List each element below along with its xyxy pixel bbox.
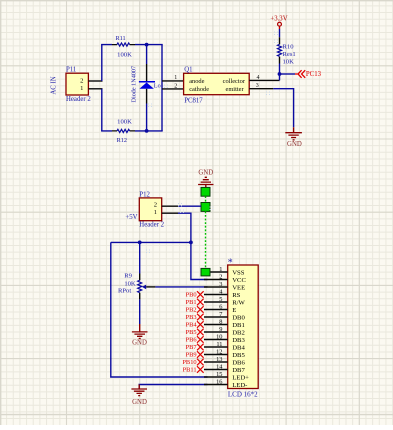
no-ERC marker pin 9 — [197, 329, 204, 336]
pin 1 of P12 — [162, 212, 178, 214]
no-ERC marker pin 10 — [197, 336, 204, 343]
junction node bottom rail/diode — [145, 129, 149, 133]
pin 2 of Q1 — [162, 88, 184, 90]
pin 8 of LCD (DB1) — [204, 318, 245, 328]
svg-text:Header 2: Header 2 — [139, 222, 164, 229]
no-ERC marker pin 7 — [197, 314, 204, 321]
svg-text:15: 15 — [216, 371, 222, 378]
dotted net tie wire to LCD pin1 — [205, 211, 207, 268]
wire rail to R9 — [139, 242, 141, 273]
svg-text:2: 2 — [80, 78, 83, 85]
ground (bottom) — [131, 385, 147, 407]
pin 14 of LCD (DB7) — [204, 363, 245, 373]
svg-text:DB3: DB3 — [232, 337, 245, 344]
svg-text:PB9: PB9 — [186, 352, 197, 359]
svg-text:collector: collector — [223, 78, 246, 85]
pin 3 of Q1 — [249, 88, 273, 90]
wire +5V rail — [111, 241, 191, 243]
junction node rail/R9 — [138, 241, 142, 245]
svg-text:DB7: DB7 — [232, 367, 245, 374]
svg-text:PB5: PB5 — [186, 329, 197, 336]
no-ERC marker pin 12 — [197, 351, 204, 358]
svg-text:PB0: PB0 — [186, 292, 197, 299]
svg-text:R11: R11 — [115, 35, 125, 42]
svg-text:LED-: LED- — [232, 382, 247, 389]
svg-text:VSS: VSS — [232, 269, 245, 276]
svg-text:10: 10 — [216, 333, 222, 340]
ground (inverted, middle) — [198, 177, 213, 187]
pin 9 of LCD (DB2) — [204, 326, 245, 336]
svg-text:Diode 1N4007: Diode 1N4007 — [130, 66, 137, 103]
pin 5 of LCD (R/W) — [204, 296, 246, 306]
potentiometer R9 — [124, 272, 155, 299]
test point square 1 — [201, 187, 210, 196]
test point square 2 — [201, 203, 210, 212]
no-ERC marker pin 13 — [197, 359, 204, 366]
svg-text:PB10: PB10 — [182, 359, 196, 366]
pin 4 of LCD (RS) — [204, 288, 241, 298]
svg-text:PB2: PB2 — [186, 307, 197, 314]
svg-text:11: 11 — [216, 341, 222, 348]
wire +3.3V to R10 — [279, 29, 281, 37]
svg-text:DB5: DB5 — [232, 352, 245, 359]
svg-text:DB1: DB1 — [232, 322, 245, 329]
wire LCD LED- to ground — [139, 385, 207, 389]
svg-text:8: 8 — [219, 318, 222, 325]
svg-text:12: 12 — [216, 348, 222, 355]
svg-text:PB11: PB11 — [183, 367, 197, 374]
resistor R11 — [112, 35, 135, 46]
transistor Q1 optocoupler body — [184, 73, 250, 94]
pin 1 of LCD (VSS) — [210, 266, 245, 276]
svg-text:14: 14 — [216, 363, 223, 370]
wire diode branch top — [146, 45, 148, 64]
hotspot grip markers — [146, 32, 278, 253]
pin 2 of P11 — [88, 80, 102, 82]
no-ERC marker pin 14 — [197, 366, 204, 373]
wire R9 wiper to LCD VEE — [155, 286, 207, 288]
svg-text:2: 2 — [219, 273, 222, 280]
pin 3 of LCD (VEE) — [204, 281, 245, 291]
no-ERC marker pin 11 — [197, 344, 204, 351]
junction node top rail/diode — [145, 43, 149, 47]
connector P11 (Header 2) — [66, 66, 88, 95]
svg-text:1: 1 — [80, 85, 83, 92]
port PC13 — [295, 70, 322, 78]
svg-text:GND: GND — [287, 141, 302, 148]
no-ERC marker pin 5 — [197, 299, 204, 306]
LCD module U? body — [228, 265, 259, 389]
svg-text:DB0: DB0 — [232, 314, 245, 321]
svg-text:LED+: LED+ — [232, 374, 249, 381]
wire R10 to node — [279, 64, 281, 81]
svg-text:Res1: Res1 — [283, 51, 296, 58]
wire P12 pin2 to square 2 — [178, 205, 201, 207]
ground (top right) — [285, 127, 302, 148]
svg-text:anode: anode — [189, 78, 204, 85]
svg-text:R/W: R/W — [232, 299, 245, 306]
dotted net tie wire — [205, 196, 207, 202]
svg-text:PB7: PB7 — [186, 344, 198, 351]
no-ERC marker pin 8 — [197, 321, 204, 328]
svg-text:10K: 10K — [124, 281, 136, 288]
svg-text:Lo: Lo — [154, 83, 161, 90]
svg-text:PB4: PB4 — [186, 322, 198, 329]
svg-text:1: 1 — [154, 209, 157, 216]
svg-text:AC IN: AC IN — [51, 76, 58, 94]
wire P12 pin1 to +5V rail — [178, 213, 191, 242]
svg-text:emitter: emitter — [225, 86, 244, 93]
test point square 3 (LCD pin1) — [201, 268, 210, 276]
pin 6 of LCD (E) — [204, 303, 236, 313]
junction node R10/pin4/PC13 — [278, 72, 282, 76]
pin 16 of LCD (LED-) — [204, 378, 247, 388]
svg-text:4: 4 — [257, 75, 260, 81]
svg-text:10K: 10K — [283, 58, 295, 65]
svg-text:9: 9 — [219, 326, 222, 333]
svg-text:13: 13 — [216, 356, 222, 363]
svg-text:GND: GND — [198, 169, 213, 176]
svg-text:GND: GND — [132, 399, 147, 406]
pin 4 of Q1 — [249, 79, 279, 81]
svg-text:+3.3V: +3.3V — [270, 16, 287, 23]
pin 1 of P11 — [88, 88, 102, 90]
svg-text:cathode: cathode — [189, 86, 209, 93]
resistor R10 — [278, 37, 295, 63]
pin 7 of LCD (DB0) — [204, 311, 245, 321]
svg-text:1: 1 — [174, 75, 177, 81]
wire Q1 emitter to GND — [273, 89, 293, 128]
wire rail to LCD LED+ — [111, 242, 208, 377]
wire right column to Q1 inputs — [161, 45, 163, 131]
svg-text:3: 3 — [256, 83, 259, 89]
svg-text:Q1: Q1 — [184, 66, 192, 73]
wire P11 pin2 up to top rail — [101, 45, 103, 81]
junction node rail/P12 — [189, 241, 193, 245]
svg-text:GND: GND — [132, 340, 147, 347]
svg-text:5: 5 — [219, 296, 222, 303]
svg-text:LCD 16*2: LCD 16*2 — [228, 391, 258, 399]
svg-text:PC13: PC13 — [306, 71, 322, 78]
svg-text:PB1: PB1 — [186, 299, 197, 306]
svg-text:PB3: PB3 — [186, 314, 197, 321]
svg-text:DB4: DB4 — [232, 344, 245, 351]
resistor R12 — [112, 129, 135, 144]
power port +3.3V — [270, 16, 287, 30]
svg-text:1: 1 — [219, 266, 222, 273]
no-ERC marker pin 6 — [197, 306, 204, 313]
svg-text:100K: 100K — [117, 51, 132, 58]
pin 10 of LCD (DB3) — [204, 333, 245, 343]
wire diode branch bottom — [146, 104, 148, 131]
svg-text:E: E — [232, 307, 236, 314]
svg-text:DB6: DB6 — [232, 359, 245, 366]
wire rail to LCD VCC — [191, 242, 208, 279]
svg-text:RPot: RPot — [118, 288, 131, 295]
diode D 1N4007 — [139, 64, 155, 104]
svg-text:6: 6 — [219, 303, 222, 310]
svg-text:P11: P11 — [66, 66, 76, 73]
svg-text:2: 2 — [154, 202, 157, 209]
svg-text:16: 16 — [216, 378, 222, 385]
svg-text:100K: 100K — [117, 119, 132, 126]
pin 1 of Q1 — [162, 80, 184, 82]
pin 11 of LCD (DB4) — [204, 341, 245, 351]
pin 2 of LCD (VCC) — [204, 273, 246, 283]
svg-text:DB2: DB2 — [232, 329, 245, 336]
svg-text:P12: P12 — [139, 191, 150, 198]
svg-text:2: 2 — [174, 83, 177, 89]
wire top rail — [101, 44, 163, 46]
svg-text:R12: R12 — [117, 137, 127, 144]
wire bottom rail — [101, 130, 163, 132]
connector P12 (Header 2) — [139, 191, 161, 220]
wire node to PC13 port — [280, 73, 296, 75]
pin 15 of LCD (LED+) — [204, 371, 249, 381]
svg-text:3: 3 — [219, 281, 222, 288]
svg-text:+5V: +5V — [125, 214, 137, 221]
pin 12 of LCD (DB5) — [204, 348, 245, 358]
svg-text:VCC: VCC — [232, 277, 246, 284]
wire R9 bottom to ground — [139, 299, 141, 324]
wire P11 pin1 down to bottom rail — [101, 89, 103, 131]
svg-text:R9: R9 — [124, 272, 132, 279]
svg-text:PB6: PB6 — [186, 337, 197, 344]
no-ERC marker pin 4 — [197, 291, 204, 298]
svg-text:Header 2: Header 2 — [66, 96, 91, 103]
ground (R9) — [132, 324, 148, 347]
svg-text:R10: R10 — [283, 44, 295, 51]
svg-text:PC817: PC817 — [184, 98, 203, 105]
pin 13 of LCD (DB6) — [204, 356, 245, 366]
pin 2 of P12 — [162, 205, 178, 207]
svg-text:RS: RS — [232, 292, 240, 299]
svg-text:VEE: VEE — [232, 284, 245, 291]
